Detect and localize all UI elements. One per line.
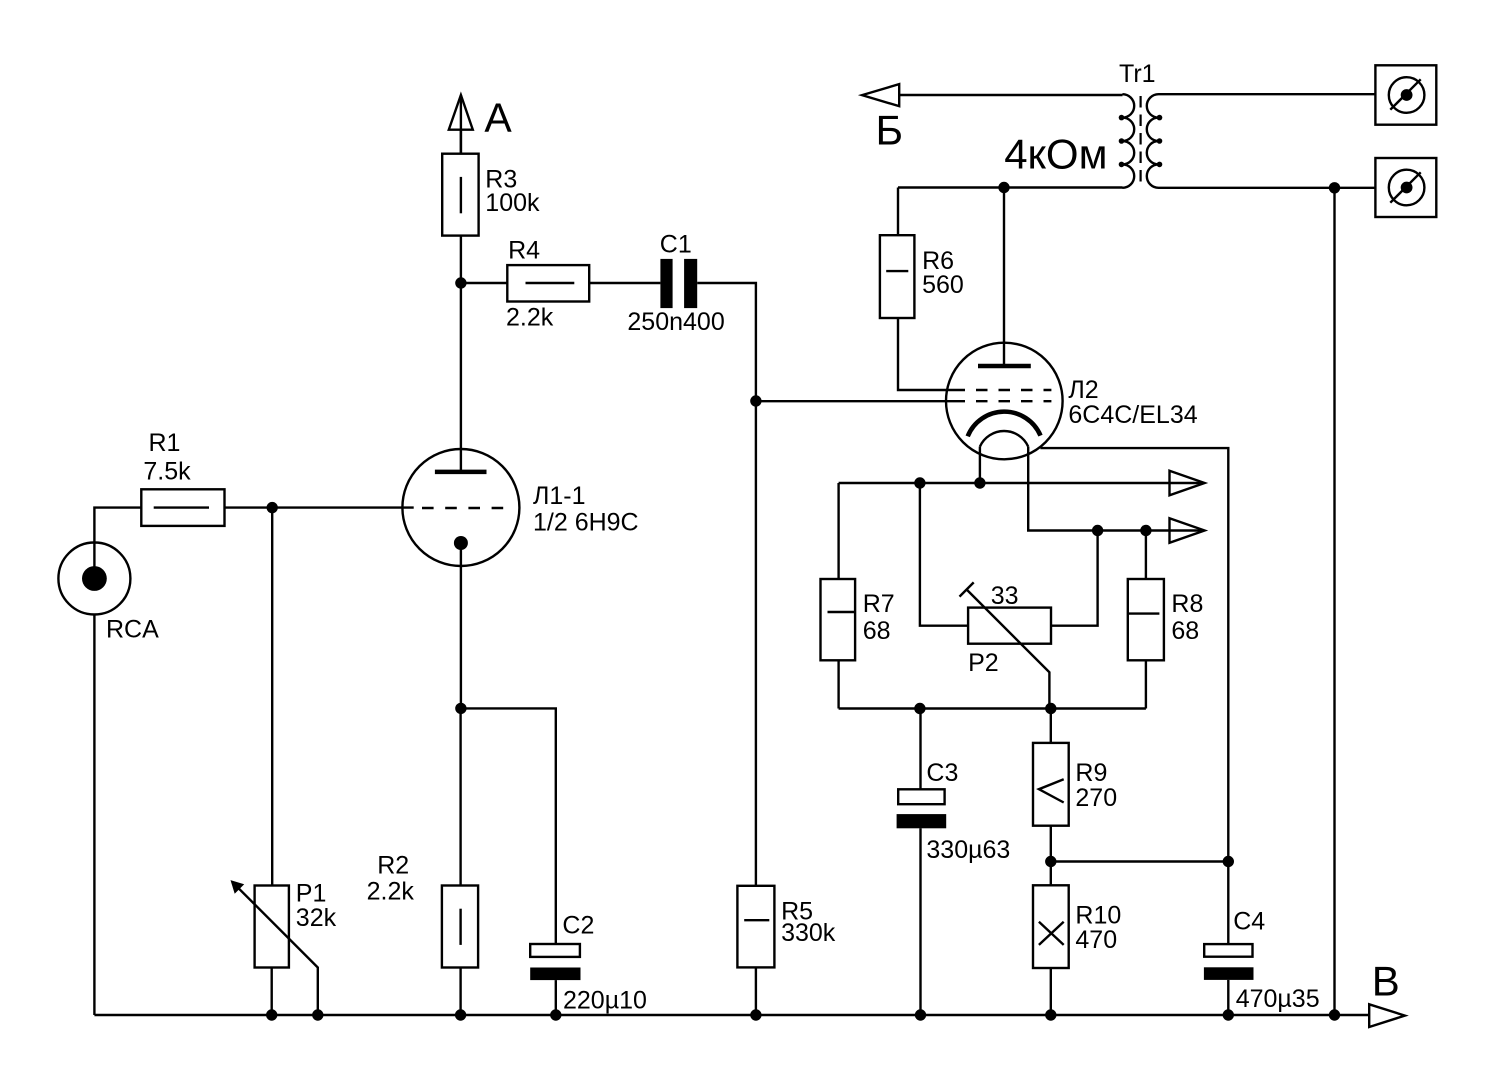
svg-text:R4: R4 <box>508 237 540 265</box>
svg-text:R9: R9 <box>1075 759 1107 787</box>
svg-text:В: В <box>1372 958 1400 1005</box>
svg-text:220µ10: 220µ10 <box>563 987 647 1015</box>
svg-text:А: А <box>484 94 512 140</box>
svg-text:68: 68 <box>1171 617 1199 645</box>
svg-text:330µ63: 330µ63 <box>926 836 1010 864</box>
svg-text:C2: C2 <box>562 912 594 940</box>
svg-text:4кОм: 4кОм <box>1004 130 1107 177</box>
svg-text:R2: R2 <box>377 852 409 880</box>
svg-text:470: 470 <box>1075 926 1117 954</box>
svg-text:P2: P2 <box>968 649 999 677</box>
svg-text:Л2: Л2 <box>1068 376 1098 404</box>
svg-text:560: 560 <box>922 271 964 299</box>
svg-text:R1: R1 <box>149 429 181 457</box>
svg-text:RCA: RCA <box>106 616 159 644</box>
svg-text:1/2 6Н9С: 1/2 6Н9С <box>533 508 639 536</box>
svg-text:R8: R8 <box>1171 590 1203 618</box>
svg-text:R7: R7 <box>863 590 895 618</box>
svg-text:100k: 100k <box>485 189 540 217</box>
svg-text:Tr1: Tr1 <box>1119 60 1156 88</box>
svg-text:68: 68 <box>863 617 891 645</box>
svg-text:2.2k: 2.2k <box>506 303 554 331</box>
svg-text:R10: R10 <box>1075 901 1121 929</box>
svg-text:C4: C4 <box>1233 907 1265 935</box>
svg-text:C1: C1 <box>660 230 692 258</box>
svg-text:C3: C3 <box>926 759 958 787</box>
svg-text:2.2k: 2.2k <box>367 878 415 906</box>
svg-text:7.5k: 7.5k <box>143 457 191 485</box>
svg-text:270: 270 <box>1075 784 1117 812</box>
svg-text:250n400: 250n400 <box>627 308 724 336</box>
svg-text:Б: Б <box>876 106 904 153</box>
svg-text:Л1-1: Л1-1 <box>533 482 586 510</box>
svg-text:330k: 330k <box>781 919 836 947</box>
svg-text:32k: 32k <box>296 904 337 932</box>
svg-text:33: 33 <box>991 582 1019 610</box>
svg-text:6C4C/EL34: 6C4C/EL34 <box>1068 401 1197 429</box>
svg-text:470µ35: 470µ35 <box>1236 985 1320 1013</box>
